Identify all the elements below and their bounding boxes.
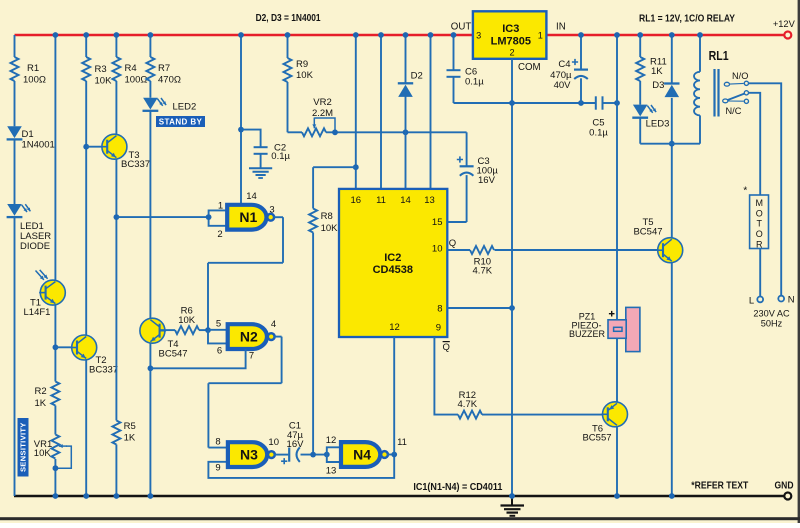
svg-text:L14F1: L14F1 xyxy=(24,307,51,318)
svg-text:BC547: BC547 xyxy=(159,349,188,360)
svg-text:D2: D2 xyxy=(411,71,423,82)
wire R3 column xyxy=(85,35,87,57)
wire R4 column xyxy=(115,35,117,57)
wire T6 collector xyxy=(616,427,618,496)
svg-text:0.1µ: 0.1µ xyxy=(271,151,290,162)
+12V rail (left of IC3) xyxy=(15,34,473,37)
svg-text:5: 5 xyxy=(216,319,221,330)
L terminal xyxy=(757,297,763,303)
potentiometer VR2 xyxy=(302,128,326,136)
svg-text:1K: 1K xyxy=(124,433,136,444)
svg-text:C4: C4 xyxy=(558,59,570,70)
svg-text:10: 10 xyxy=(268,437,279,448)
svg-text:IC3: IC3 xyxy=(502,23,519,35)
svg-text:100Ω: 100Ω xyxy=(125,75,148,86)
wire common to motor xyxy=(749,93,761,195)
ground symbol C2 xyxy=(249,167,272,169)
svg-text:R: R xyxy=(756,239,763,249)
junction T3 base xyxy=(83,144,89,150)
svg-text:Q: Q xyxy=(443,342,450,353)
junction on +12V rail xyxy=(53,32,59,38)
svg-text:R7: R7 xyxy=(158,63,170,74)
junction N4 output xyxy=(391,452,397,458)
wire Q row xyxy=(447,249,470,251)
wire C3 column xyxy=(466,132,468,166)
transistor T2 xyxy=(71,335,97,360)
relay N/C contact xyxy=(728,100,744,102)
svg-text:CD4538: CD4538 xyxy=(373,264,413,276)
label buzzer plus xyxy=(609,311,615,317)
svg-text:N2: N2 xyxy=(240,329,258,345)
wire relay bottom row xyxy=(640,143,700,145)
wire N2 pin5 xyxy=(208,329,227,331)
resistor R4 xyxy=(112,57,120,81)
motor M1 xyxy=(750,195,769,249)
svg-text:4.7K: 4.7K xyxy=(458,399,478,410)
wire N/O to N terminal xyxy=(749,83,782,295)
svg-text:M: M xyxy=(755,198,763,208)
svg-text:N/C: N/C xyxy=(726,106,742,116)
junction C2 branch xyxy=(238,127,244,133)
wire Qbar row xyxy=(434,337,458,415)
svg-text:1K: 1K xyxy=(651,66,663,77)
svg-text:4.7K: 4.7K xyxy=(473,266,493,277)
svg-text:*REFER TEXT: *REFER TEXT xyxy=(691,481,748,492)
resistor R9 xyxy=(284,58,292,82)
svg-text:10K: 10K xyxy=(178,315,196,326)
wire C2 branch xyxy=(241,130,261,148)
svg-text:13: 13 xyxy=(326,465,337,476)
junction N1 inputs xyxy=(206,214,212,220)
junction on +12V rail xyxy=(637,32,643,38)
LED3 xyxy=(632,105,648,118)
transistor T3 xyxy=(101,134,127,159)
svg-text:N1: N1 xyxy=(239,209,257,225)
N terminal xyxy=(778,296,784,302)
svg-text:O: O xyxy=(756,229,763,239)
junction C5 to 12V column xyxy=(614,100,620,106)
svg-text:DIODE: DIODE xyxy=(20,241,50,252)
relay N/O contact xyxy=(724,82,729,86)
svg-text:2: 2 xyxy=(509,48,514,58)
svg-text:STAND BY: STAND BY xyxy=(159,117,203,126)
svg-text:10K: 10K xyxy=(321,223,339,234)
svg-text:D1: D1 xyxy=(22,129,34,140)
svg-text:N/O: N/O xyxy=(732,71,748,81)
wire T3 base xyxy=(86,146,108,148)
+12V rail (right of IC3) xyxy=(546,34,784,37)
diode D3 xyxy=(664,84,679,98)
svg-text:8: 8 xyxy=(437,303,442,314)
svg-text:4: 4 xyxy=(271,319,276,330)
bottom border frame xyxy=(0,517,800,520)
svg-text:R8: R8 xyxy=(321,211,333,222)
junction COM node xyxy=(509,100,515,106)
svg-text:*: * xyxy=(743,185,747,197)
svg-text:100Ω: 100Ω xyxy=(23,75,46,86)
capacitor C4 xyxy=(574,68,588,70)
wire VR2 row xyxy=(288,131,303,133)
wire N2 pin7 xyxy=(150,349,245,368)
svg-text:BUZZER: BUZZER xyxy=(569,329,606,339)
junction N2 pin7 xyxy=(148,365,154,371)
svg-text:COM: COM xyxy=(518,62,541,73)
svg-text:50Hz: 50Hz xyxy=(761,319,783,329)
svg-text:T: T xyxy=(756,219,762,229)
relay coil xyxy=(694,72,700,116)
junction on GND rail xyxy=(83,493,89,499)
wire N1 input bracket xyxy=(209,210,227,225)
nand gate N1 xyxy=(227,205,274,230)
junction VR1 wiper xyxy=(53,465,59,471)
svg-text:OUT: OUT xyxy=(451,22,472,33)
svg-text:40V: 40V xyxy=(554,80,572,91)
svg-text:6: 6 xyxy=(217,345,222,356)
resistor R11 xyxy=(636,57,644,81)
wire T1 column xyxy=(54,35,56,280)
transistor T4 xyxy=(140,318,166,343)
svg-text:11: 11 xyxy=(397,437,407,448)
junction on +12V rail xyxy=(697,32,703,38)
wire IC2 pin11 column xyxy=(380,35,382,189)
junction on +12V rail xyxy=(669,32,675,38)
wire IC2 pin16 column xyxy=(355,35,357,189)
junction N1 input feed xyxy=(114,214,120,220)
junction on +12V rail xyxy=(378,32,384,38)
junction VR2 to pin14 xyxy=(403,129,409,135)
svg-text:+12V: +12V xyxy=(773,19,796,29)
junction VR2 wiper xyxy=(332,129,338,135)
svg-text:10K: 10K xyxy=(34,448,52,459)
junction on GND rail xyxy=(114,493,120,499)
svg-text:R5: R5 xyxy=(124,421,136,432)
junction T5 to GND xyxy=(669,493,675,499)
svg-text:N: N xyxy=(788,295,795,306)
svg-text:R1: R1 xyxy=(27,63,39,74)
junction on +12V rail xyxy=(353,32,359,38)
svg-text:9: 9 xyxy=(215,463,220,474)
junction on +12V rail xyxy=(114,32,120,38)
resistor R5 xyxy=(112,421,120,445)
junction on +12V rail xyxy=(614,32,620,38)
resistor R3 xyxy=(82,57,90,81)
junction on +12V rail xyxy=(83,32,89,38)
svg-text:BC337: BC337 xyxy=(121,159,150,170)
svg-text:N4: N4 xyxy=(353,447,371,463)
svg-text:3: 3 xyxy=(269,205,274,216)
wire IC2 pin13 column xyxy=(430,35,432,189)
relay core xyxy=(715,69,719,117)
LED1 laser diode xyxy=(7,204,23,217)
wire N4 output xyxy=(387,454,394,456)
wire motor to L terminal xyxy=(759,249,761,297)
resistor R12 xyxy=(458,411,482,419)
wire R9 column xyxy=(287,35,289,58)
svg-text:R9: R9 xyxy=(296,59,308,70)
resistor R8 xyxy=(309,209,317,233)
junction on +12V rail xyxy=(403,32,409,38)
GND terminal xyxy=(784,493,791,500)
wire R8 branch xyxy=(313,166,356,168)
wire N2 pin6 bracket xyxy=(208,330,227,343)
IC3 LM7805 xyxy=(473,11,547,59)
resistor R7 xyxy=(146,57,154,81)
svg-text:D3: D3 xyxy=(652,80,664,91)
svg-text:BC557: BC557 xyxy=(582,433,611,444)
+12V terminal xyxy=(784,32,791,39)
junction R8 branch xyxy=(353,164,359,170)
svg-text:1: 1 xyxy=(218,201,223,212)
svg-text:13: 13 xyxy=(424,195,435,206)
svg-text:GND: GND xyxy=(775,480,794,491)
svg-text:16V: 16V xyxy=(287,439,305,450)
capacitor C6 xyxy=(447,69,461,71)
svg-text:RL1: RL1 xyxy=(709,49,729,63)
nand gate N4 xyxy=(341,442,388,467)
junction on +12V rail xyxy=(428,32,434,38)
wire C6 column xyxy=(453,35,455,70)
svg-text:VR2: VR2 xyxy=(313,97,331,108)
svg-text:LM7805: LM7805 xyxy=(491,35,531,47)
svg-text:10K: 10K xyxy=(95,76,113,87)
wire R1 column xyxy=(14,35,16,57)
svg-text:RL1 = 12V, 1C/O RELAY: RL1 = 12V, 1C/O RELAY xyxy=(639,14,735,25)
wire relay coil column xyxy=(699,35,701,72)
capacitor C2 xyxy=(254,146,268,148)
junction on +12V rail xyxy=(238,32,244,38)
wire pin8 row xyxy=(447,307,512,309)
svg-text:9: 9 xyxy=(436,323,441,334)
junction on +12V rail xyxy=(285,32,291,38)
svg-text:230V AC: 230V AC xyxy=(753,309,790,319)
junction on GND rail xyxy=(148,493,154,499)
svg-text:16V: 16V xyxy=(478,175,496,186)
junction on +12V rail xyxy=(578,32,584,38)
wire COM column xyxy=(511,59,513,496)
svg-text:IC1(N1-N4) = CD4011: IC1(N1-N4) = CD4011 xyxy=(413,482,502,493)
SENSITIVITY badge xyxy=(18,418,29,477)
svg-text:1: 1 xyxy=(538,30,543,40)
svg-text:R2: R2 xyxy=(35,386,47,397)
wire C1 to N4 bracket xyxy=(301,454,327,456)
junction T6 to GND xyxy=(614,493,620,499)
svg-text:2: 2 xyxy=(217,229,222,240)
capacitor C1 xyxy=(288,448,290,462)
svg-text:LED2: LED2 xyxy=(173,102,197,113)
capacitor C3 xyxy=(460,165,474,167)
svg-text:O: O xyxy=(756,208,763,218)
svg-text:470Ω: 470Ω xyxy=(158,75,181,86)
svg-text:IC2: IC2 xyxy=(384,252,401,264)
junction on +12V rail xyxy=(148,32,154,38)
wire COM node row xyxy=(454,102,596,104)
junction relay coil node xyxy=(669,141,675,147)
transistor T6 xyxy=(601,402,627,427)
nand gate N2 xyxy=(228,324,275,349)
piezo buzzer PZ1 xyxy=(608,307,640,351)
wire N1 pin14 column xyxy=(240,35,242,203)
svg-text:BC547: BC547 xyxy=(633,226,662,237)
capacitor C5 xyxy=(595,96,597,109)
wire C4 column xyxy=(580,35,582,70)
junction on +12V rail xyxy=(451,32,457,38)
potentiometer VR1 xyxy=(51,435,59,459)
wire R6 row xyxy=(160,329,175,331)
wire N2 output loop xyxy=(274,336,282,338)
STAND BY badge xyxy=(156,116,205,127)
svg-text:2.2M: 2.2M xyxy=(312,108,333,119)
wire N4 output to IC2 pin12 xyxy=(393,337,395,455)
transistor T5 xyxy=(657,238,683,263)
svg-text:16: 16 xyxy=(351,195,362,206)
diode D1 xyxy=(7,126,23,139)
svg-text:SENSITIVITY: SENSITIVITY xyxy=(19,422,28,472)
svg-text:N3: N3 xyxy=(240,447,258,463)
svg-text:LED3: LED3 xyxy=(646,119,670,130)
svg-text:11: 11 xyxy=(376,195,386,206)
svg-text:IN: IN xyxy=(556,22,566,33)
svg-text:BC337: BC337 xyxy=(89,365,118,376)
svg-text:1N4001: 1N4001 xyxy=(22,140,55,151)
wire N1 input feed xyxy=(116,216,208,218)
chassis ground xyxy=(501,497,525,516)
svg-text:14: 14 xyxy=(246,191,257,202)
svg-text:3: 3 xyxy=(476,30,481,40)
resistor R2 xyxy=(51,382,59,406)
junction pin8 to COM column xyxy=(509,305,515,311)
junction N4 input bracket xyxy=(324,452,330,458)
wire N3 output xyxy=(274,454,288,456)
resistor R10 xyxy=(470,246,494,254)
svg-text:0.1µ: 0.1µ xyxy=(589,127,608,138)
svg-text:8: 8 xyxy=(215,437,220,448)
phototransistor T1 xyxy=(39,280,65,305)
LED2 xyxy=(143,98,159,111)
svg-text:14: 14 xyxy=(400,195,411,206)
junction N2 pin5 xyxy=(205,327,211,333)
svg-text:R4: R4 xyxy=(125,63,137,74)
wire N3 pin8 xyxy=(208,447,227,449)
junction C4 node xyxy=(578,100,584,106)
svg-text:10K: 10K xyxy=(296,70,314,81)
resistor R1 xyxy=(11,57,19,81)
resistor R6 xyxy=(175,326,199,334)
svg-text:0.1µ: 0.1µ xyxy=(465,77,484,88)
wire T2 base xyxy=(55,346,78,348)
svg-text:7: 7 xyxy=(249,351,254,362)
junction COM to GND xyxy=(509,493,515,499)
wire buzzer column xyxy=(616,35,618,320)
svg-text:L: L xyxy=(749,296,754,307)
wire N3 pin9 bracket xyxy=(208,455,394,478)
svg-text:15: 15 xyxy=(432,217,443,228)
svg-text:D2, D3 = 1N4001: D2, D3 = 1N4001 xyxy=(256,13,321,24)
wire N4 input bracket xyxy=(327,447,340,462)
nand gate N3 xyxy=(228,442,275,467)
right border frame xyxy=(798,0,800,523)
svg-text:12: 12 xyxy=(389,322,400,333)
svg-text:1K: 1K xyxy=(35,398,47,409)
wire R7 column xyxy=(149,35,151,57)
wire D3 column xyxy=(671,35,673,84)
diode D2 xyxy=(398,83,413,97)
svg-text:R3: R3 xyxy=(95,64,107,75)
GND rail xyxy=(14,495,784,497)
relay common pole xyxy=(723,99,728,103)
junction on GND rail xyxy=(53,493,59,499)
svg-text:12: 12 xyxy=(326,435,337,446)
junction T2 base xyxy=(53,344,59,350)
svg-text:10: 10 xyxy=(432,244,443,255)
svg-text:Q: Q xyxy=(449,238,456,249)
wire N1 output xyxy=(273,216,283,218)
junction C1 R8 node xyxy=(310,452,316,458)
wire R11 column xyxy=(639,35,641,57)
IC2 CD4538 xyxy=(339,189,447,337)
wire IC2 pin14 column xyxy=(405,35,407,83)
